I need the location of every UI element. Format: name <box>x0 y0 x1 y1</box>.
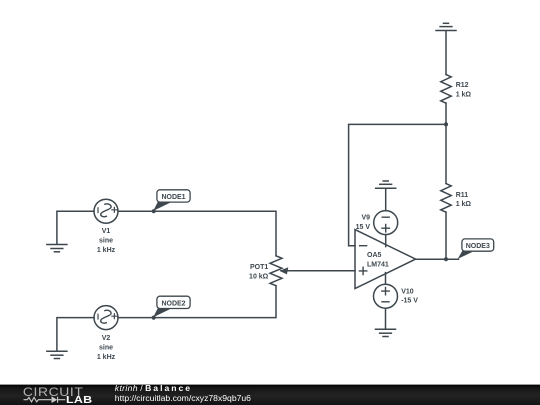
svg-text:NODE2: NODE2 <box>161 300 185 307</box>
svg-text:LM741: LM741 <box>367 261 389 268</box>
node flag NODE2 <box>153 296 190 317</box>
resistor R11 <box>441 184 451 213</box>
svg-text:1 kΩ: 1 kΩ <box>456 91 472 98</box>
wire ground to R12 <box>445 31 447 75</box>
op-amp OA5 triangle <box>355 230 416 289</box>
wire V1 left to ground <box>57 211 94 244</box>
ground (V1) <box>47 245 67 252</box>
wire junction to R11 <box>445 124 447 183</box>
wire feedback: minus input up and to R11/R12 junction <box>349 124 446 245</box>
svg-text:1 kΩ: 1 kΩ <box>456 201 472 208</box>
wire V10 bottom to ground <box>385 308 387 329</box>
svg-text:sine: sine <box>99 344 113 351</box>
wire R11 to output junction <box>445 212 447 259</box>
junction node NODE3 <box>444 257 448 261</box>
svg-text:R12: R12 <box>456 82 469 89</box>
wire POT1 wiper to op-amp + <box>281 270 355 272</box>
svg-text:ktrinh / Balance: ktrinh / Balance <box>115 383 192 393</box>
wire op-amp output <box>416 258 459 260</box>
wire V10 top into op-amp <box>385 273 387 285</box>
wire R12 to junction <box>445 103 447 124</box>
wire NODE2 to POT1 bottom <box>118 286 276 318</box>
svg-text:NODE1: NODE1 <box>161 194 185 201</box>
resistor R12 <box>441 75 451 104</box>
junction node NODE1 <box>152 209 156 213</box>
wire V2 left to ground <box>57 318 94 351</box>
svg-text:V1: V1 <box>102 228 111 235</box>
svg-text:10 kΩ: 10 kΩ <box>249 273 269 280</box>
junction node NODE2 <box>152 316 156 320</box>
svg-text:1 kHz: 1 kHz <box>97 354 116 361</box>
voltage source V9 <box>374 211 398 235</box>
voltage source V10 <box>374 284 398 308</box>
svg-text:R11: R11 <box>456 192 469 199</box>
wire NODE1 to POT1 <box>118 211 276 256</box>
voltage source V2 <box>94 306 118 330</box>
junction R12/R11 feedback <box>444 122 448 126</box>
svg-text:NODE3: NODE3 <box>466 243 490 250</box>
svg-text:POT1: POT1 <box>250 264 268 271</box>
op-amp plus symbol <box>359 267 366 274</box>
svg-text:LAB: LAB <box>66 395 92 405</box>
svg-text:1 kHz: 1 kHz <box>97 247 116 254</box>
POT1 wiper arrow <box>280 267 289 274</box>
svg-text:-15 V: -15 V <box>401 298 418 305</box>
potentiometer POT1 <box>270 256 282 286</box>
node flag NODE1 <box>153 190 190 211</box>
voltage source V1 <box>94 199 118 223</box>
ground flipped above V9 <box>376 181 396 188</box>
ground below V10 <box>376 329 396 336</box>
op-amp minus symbol <box>360 245 367 247</box>
wire V9 top to ground <box>385 188 387 210</box>
svg-text:V9: V9 <box>361 214 370 221</box>
svg-text:OA5: OA5 <box>367 252 382 259</box>
wire V9 bottom into op-amp <box>385 235 387 247</box>
svg-text:http://circuitlab.com/cxyz78x9: http://circuitlab.com/cxyz78x9qb7u6 <box>115 393 251 403</box>
bottom bar <box>0 383 540 405</box>
svg-text:15 V: 15 V <box>356 224 371 231</box>
ground (V2) <box>47 351 67 358</box>
logo resistor-diode glyph <box>24 397 66 403</box>
svg-text:V10: V10 <box>401 288 414 295</box>
svg-text:sine: sine <box>99 238 113 245</box>
node flag NODE3 <box>458 239 494 259</box>
ground flipped above R12 <box>436 23 456 30</box>
svg-text:V2: V2 <box>102 335 111 342</box>
